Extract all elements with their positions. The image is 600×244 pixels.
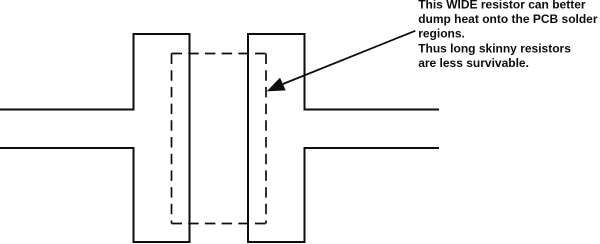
svg-text:dump heat onto the PCB solder: dump heat onto the PCB solder <box>418 12 598 26</box>
svg-text:Thus long skinny resistors: Thus long skinny resistors <box>418 42 571 56</box>
wire right trace with right solder pad outline <box>248 34 439 242</box>
svg-text:regions.: regions. <box>418 27 465 41</box>
wire left trace with left solder pad outline <box>0 34 190 242</box>
leader arrowhead <box>267 78 286 92</box>
svg-text:This WIDE resistor can better: This WIDE resistor can better <box>418 0 586 11</box>
resistor body dashed outline <box>172 54 267 224</box>
leader arrow line <box>283 31 415 84</box>
svg-text:are less survivable.: are less survivable. <box>418 56 529 70</box>
annotation text <box>418 0 598 70</box>
